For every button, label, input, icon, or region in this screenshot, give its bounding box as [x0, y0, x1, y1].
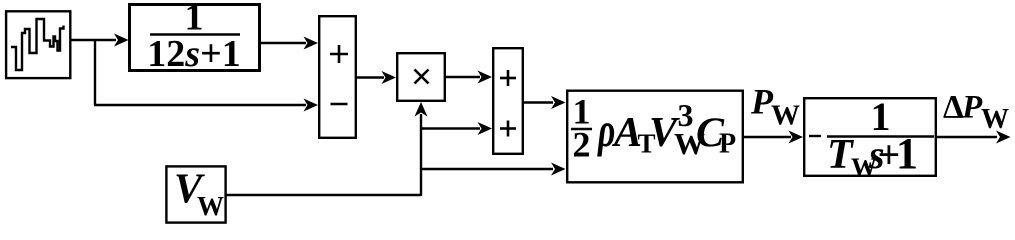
svg-text:W: W [771, 100, 800, 132]
wire: formula block to TF2 [742, 136, 791, 138]
wire: multiplier to sum2 [445, 76, 480, 78]
S2 plus bottom [500, 127, 516, 130]
svg-text:P: P [961, 90, 983, 126]
arrowhead up into multiplier bottom [415, 102, 428, 117]
svg-text:3: 3 [678, 97, 694, 133]
formula fraction bar [571, 128, 592, 130]
arrowhead into formula block lower input [551, 163, 566, 176]
arrowhead into multiplier [382, 71, 397, 84]
S1 plus sign [330, 53, 348, 56]
svg-text:P: P [719, 129, 736, 160]
svg-text:Δ: Δ [943, 90, 964, 126]
svg-text:W: W [981, 104, 1009, 135]
multiply sign [415, 70, 429, 84]
TF2 minus sign [809, 135, 821, 137]
svg-text:ρ: ρ [596, 103, 615, 156]
wire: branch to formula block second input [421, 168, 553, 170]
V_W block [166, 166, 225, 222]
wire: sum2 to formula block [522, 101, 553, 103]
wire: TF1 to sum1 plus [260, 42, 306, 44]
S1 minus sign [331, 103, 348, 106]
TF2 fraction bar [827, 135, 934, 137]
sum block S2 (+ +) [493, 48, 523, 154]
output wire delta P_W [935, 136, 997, 138]
multiplier block (x) [397, 53, 445, 101]
arrowhead into sum2 bottom [478, 122, 493, 135]
arrowhead into formula block upper input [551, 96, 566, 109]
wire: branch down from node to minus input [94, 39, 96, 105]
transfer function TF2 -1/(T_W s+1) [804, 98, 936, 176]
wire: sum1 to multiplier [356, 76, 384, 78]
wire: V_W output horizontal [226, 194, 421, 196]
svg-text:12s+1: 12s+1 [147, 33, 240, 75]
transfer function TF1 1/(12s+1) [130, 5, 260, 71]
noise source block (random signal) [6, 11, 70, 78]
wire: branch horizontal to sum1 minus [94, 104, 306, 106]
svg-text:1: 1 [896, 129, 918, 178]
wire: vertical up to multiplier [420, 114, 422, 196]
arrowhead into sum1 minus [304, 99, 319, 112]
formula block 1/2 rho A_T V_W^3 C_P [567, 91, 743, 183]
noise waveform icon [11, 19, 64, 70]
output arrowhead [996, 131, 1011, 144]
arrowhead into TF2 [789, 131, 804, 144]
arrowhead into sum2 top [478, 71, 493, 84]
svg-text:2: 2 [573, 125, 591, 165]
svg-text:W: W [197, 191, 224, 221]
wire: branch to sum2 bottom input [421, 127, 480, 129]
arrowhead into TF1 [114, 34, 129, 47]
TF1 fraction bar [150, 33, 240, 35]
wire: source to TF1 [70, 39, 116, 41]
arrowhead into sum1 plus [304, 37, 319, 50]
sum block S1 (+ -) [319, 16, 356, 138]
S2 plus top [500, 77, 516, 80]
